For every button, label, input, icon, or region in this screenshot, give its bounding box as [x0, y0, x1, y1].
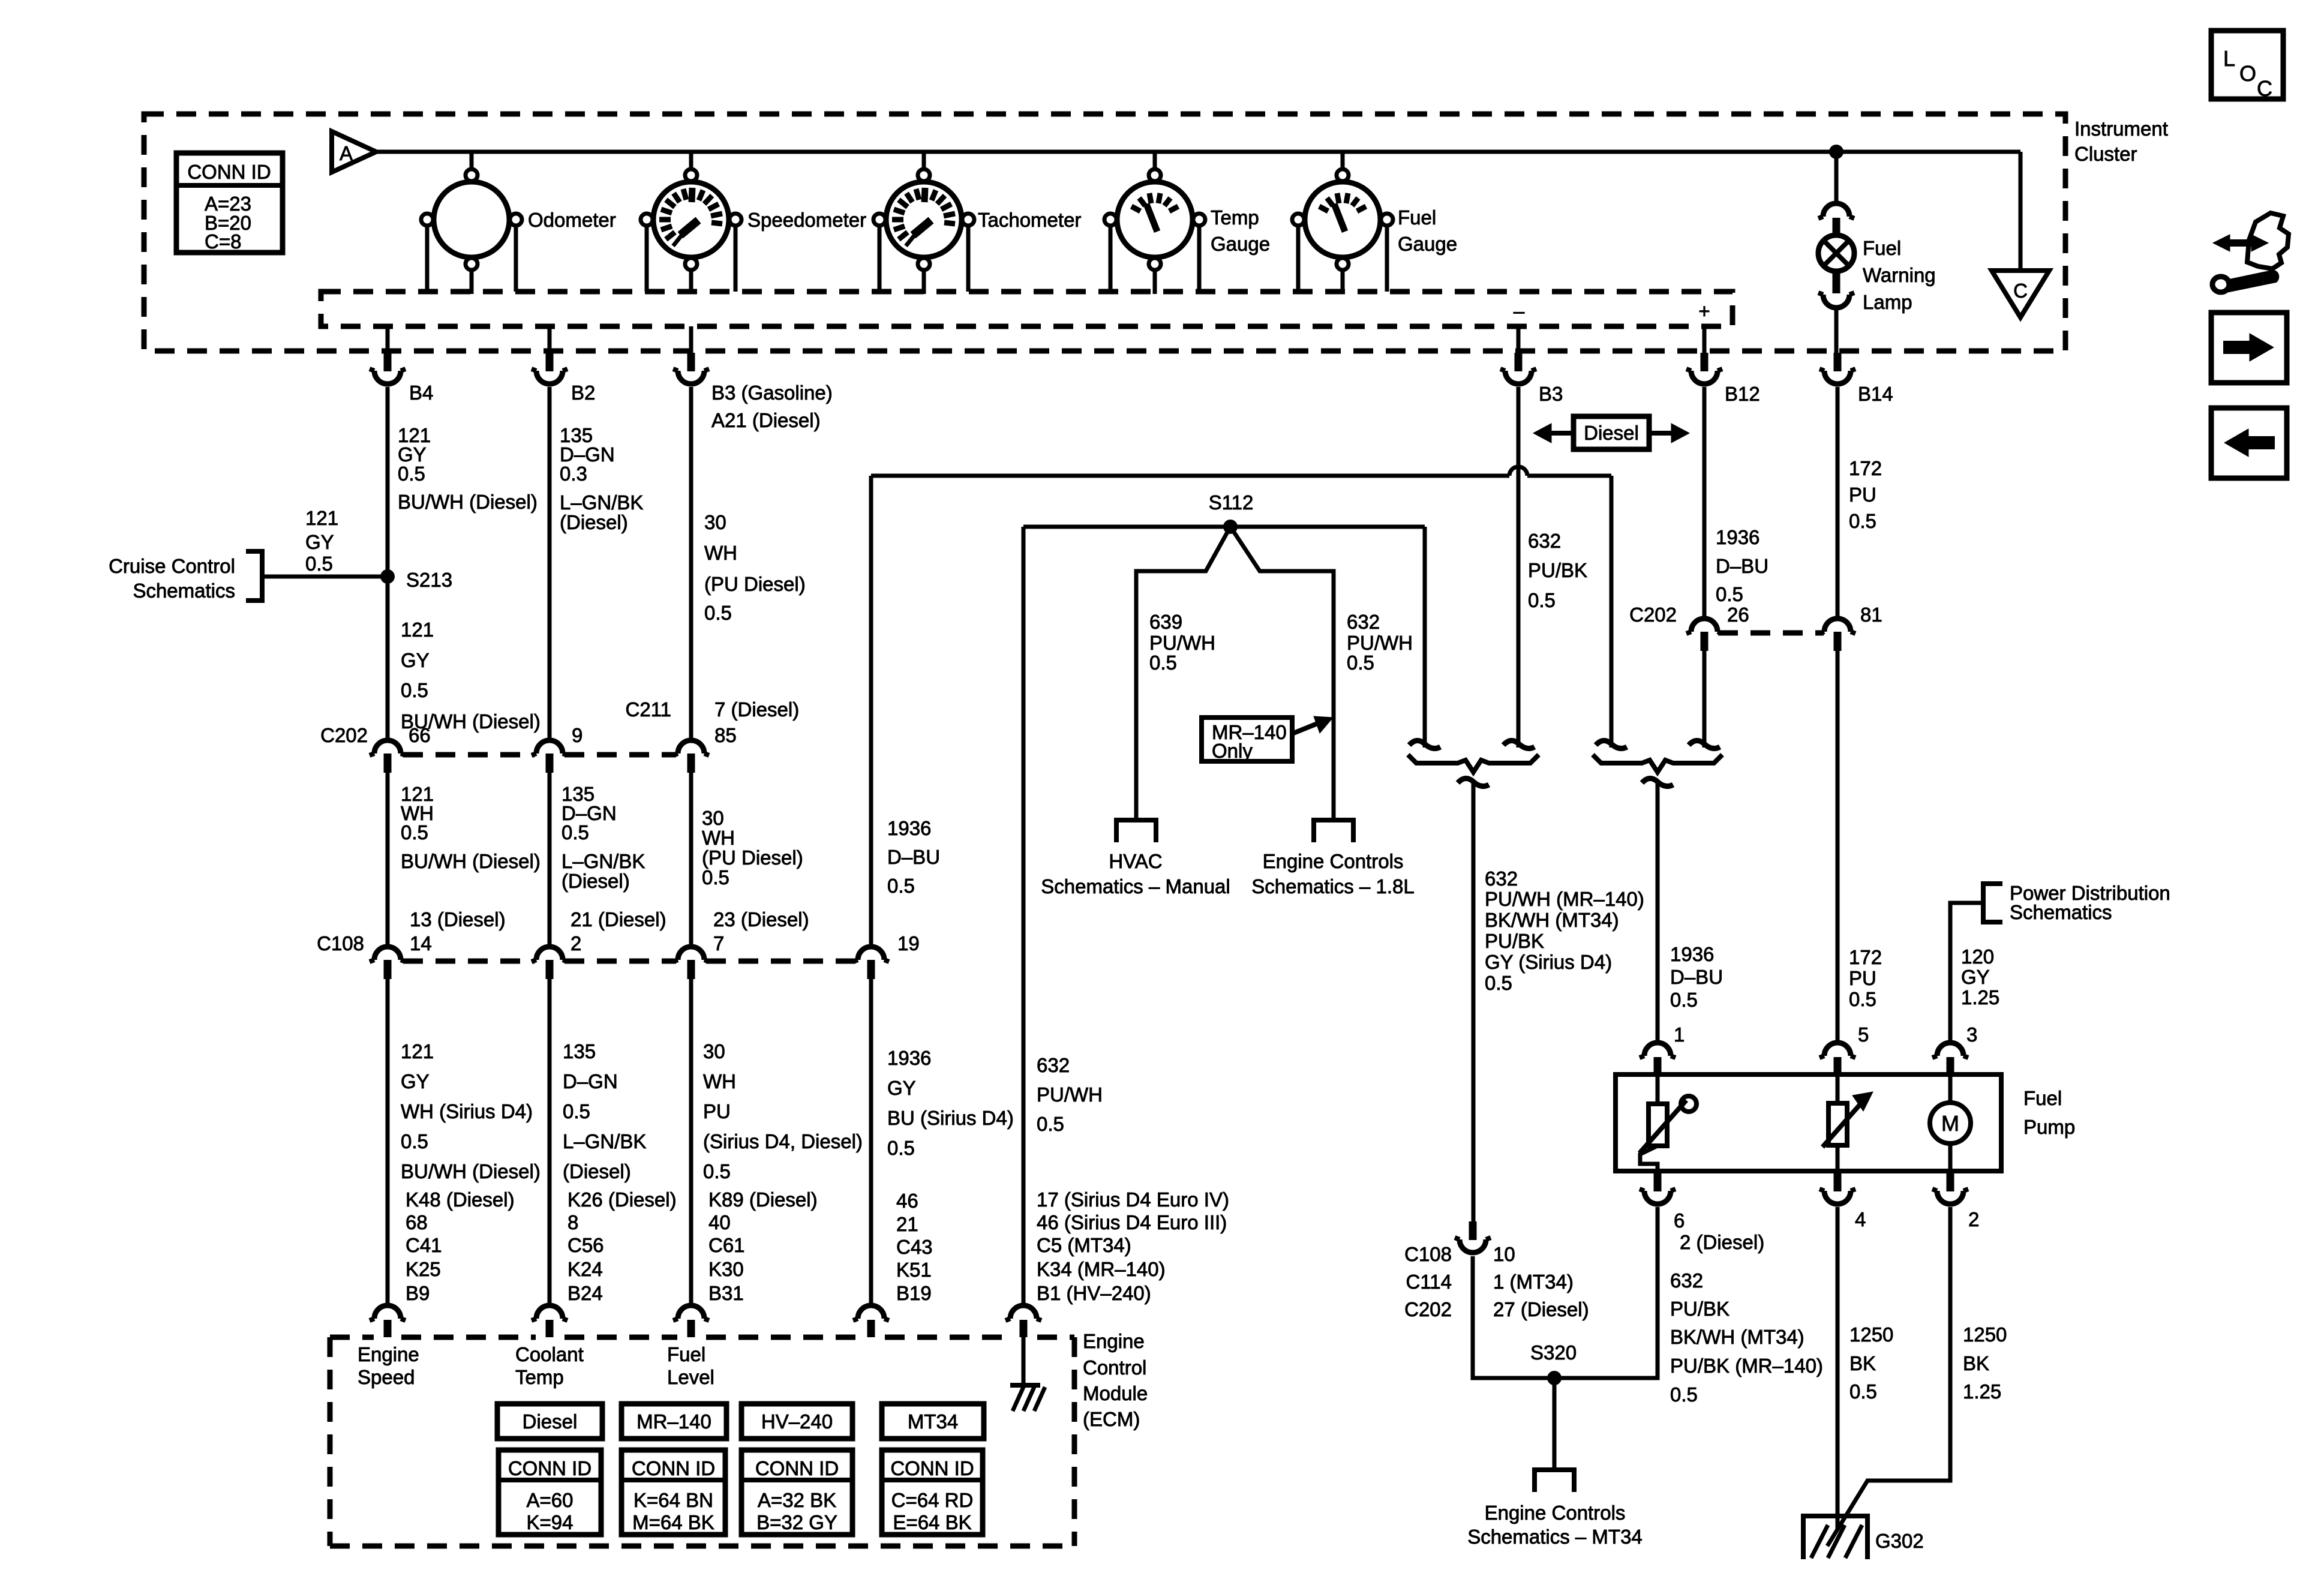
svg-text:CONN ID: CONN ID: [187, 161, 271, 183]
wire column B upper: [548, 387, 552, 739]
svg-text:C202: C202: [320, 724, 368, 746]
svg-text:120: 120: [1961, 945, 1994, 968]
svg-text:Speedometer: Speedometer: [747, 209, 866, 231]
splice S213: [380, 569, 395, 584]
svg-text:S213: S213: [406, 569, 452, 591]
wire column A lower: [386, 979, 390, 1305]
connector C108-19 column D: [858, 947, 884, 960]
svg-text:CONN ID: CONN ID: [632, 1457, 715, 1479]
fuel warning lamp assembly: [1834, 152, 1839, 205]
svg-text:G302: G302: [1875, 1530, 1924, 1552]
svg-text:B=32 GY: B=32 GY: [756, 1511, 837, 1533]
svg-text:D–BU: D–BU: [1670, 966, 1723, 988]
navigation icon arrows and wrench: [2227, 239, 2254, 247]
connector B3 (Gasoline) A21 (Diesel): [687, 353, 695, 371]
svg-text:B24: B24: [568, 1282, 603, 1304]
svg-text:23 (Diesel): 23 (Diesel): [713, 908, 809, 930]
svg-text:WH: WH: [703, 1070, 736, 1092]
svg-text:B14: B14: [1858, 383, 1893, 405]
wire column B lower: [548, 979, 552, 1305]
svg-text:17 (Sirius D4 Euro IV): 17 (Sirius D4 Euro IV): [1037, 1188, 1229, 1211]
svg-text:0.5: 0.5: [401, 679, 428, 701]
svg-text:0.5: 0.5: [401, 821, 428, 843]
wire column C lower: [689, 979, 693, 1305]
inner dashed bus box of instrument cluster: [321, 292, 1733, 326]
svg-text:(Diesel): (Diesel): [562, 870, 630, 892]
svg-text:C211: C211: [626, 698, 671, 721]
svg-text:0.5: 0.5: [703, 1160, 731, 1182]
svg-text:632: 632: [1485, 867, 1518, 890]
svg-text:S112: S112: [1209, 491, 1254, 514]
connector pin 2: [1947, 1173, 1954, 1191]
LOC icon box: [2211, 31, 2283, 99]
svg-text:C202: C202: [1404, 1298, 1452, 1320]
connector C202-81 on B14: [1824, 619, 1851, 632]
svg-text:14: 14: [410, 932, 432, 954]
svg-text:D–BU: D–BU: [1716, 555, 1768, 577]
svg-text:GY (Sirius D4): GY (Sirius D4): [1485, 951, 1612, 973]
svg-text:632: 632: [1347, 611, 1380, 633]
svg-text:MR–140: MR–140: [636, 1410, 711, 1433]
svg-text:Control: Control: [1083, 1356, 1146, 1379]
svg-text:C114: C114: [1406, 1271, 1452, 1293]
svg-text:WH (Sirius D4): WH (Sirius D4): [401, 1100, 533, 1122]
svg-text:C108: C108: [1404, 1243, 1452, 1265]
svg-text:Fuel: Fuel: [1863, 237, 1901, 259]
svg-text:C43: C43: [896, 1236, 933, 1258]
svg-text:0.5: 0.5: [305, 553, 333, 575]
svg-text:81: 81: [1860, 604, 1882, 626]
svg-text:S320: S320: [1530, 1341, 1577, 1364]
svg-text:Engine Controls: Engine Controls: [1263, 850, 1404, 872]
wire right end down to brace: [1610, 476, 1614, 748]
svg-text:3: 3: [1966, 1023, 1977, 1046]
svg-text:7 (Diesel): 7 (Diesel): [714, 698, 799, 721]
wire right brace output down to fuel pump pin 1: [1656, 780, 1660, 1043]
svg-text:PU/WH (MR–140): PU/WH (MR–140): [1485, 888, 1644, 910]
svg-text:GY: GY: [401, 649, 430, 671]
svg-text:30: 30: [702, 807, 724, 829]
svg-text:C61: C61: [708, 1234, 745, 1256]
svg-text:Cluster: Cluster: [2074, 143, 2137, 165]
svg-text:B1 (HV–240): B1 (HV–240): [1037, 1282, 1151, 1304]
output curl right brace: [1642, 778, 1673, 786]
connector B12: [1701, 353, 1709, 371]
svg-text:632: 632: [1528, 530, 1561, 552]
wire B12 below connector to brace: [1703, 651, 1707, 748]
wire B14 down to fuel pump pin 5: [1836, 387, 1840, 617]
connector C108-7 column C: [678, 947, 704, 960]
gauge Tachometer: [886, 182, 962, 257]
svg-text:B3: B3: [1539, 383, 1563, 405]
svg-text:Level: Level: [667, 1366, 714, 1388]
wire column A mid: [386, 773, 390, 945]
connector C108-2 column B: [536, 947, 563, 960]
svg-text:WH: WH: [702, 827, 735, 849]
svg-text:A21 (Diesel): A21 (Diesel): [711, 409, 821, 431]
svg-text:1: 1: [1674, 1023, 1685, 1046]
svg-text:68: 68: [406, 1211, 428, 1233]
connector B3: [1515, 353, 1523, 371]
connector row C202 dashes: [403, 752, 535, 758]
wire B12 fuel gauge plus: [1703, 326, 1707, 353]
connector C202-26 on B12: [1691, 619, 1718, 632]
svg-text:(PU Diesel): (PU Diesel): [702, 846, 803, 869]
svg-text:K48 (Diesel): K48 (Diesel): [406, 1188, 515, 1211]
svg-text:K51: K51: [896, 1259, 932, 1281]
svg-text:O: O: [2239, 61, 2256, 86]
wire end curls into left brace: [1409, 740, 1440, 748]
svg-text:0.3: 0.3: [560, 463, 587, 485]
svg-text:BK/WH (MT34): BK/WH (MT34): [1670, 1326, 1804, 1348]
motor M: [1948, 1074, 1953, 1103]
svg-text:E=64 BK: E=64 BK: [893, 1511, 971, 1533]
svg-text:1936: 1936: [1670, 943, 1714, 965]
svg-text:K=94: K=94: [527, 1511, 574, 1533]
svg-text:BK: BK: [1963, 1352, 1989, 1374]
svg-text:C=64 RD: C=64 RD: [891, 1489, 974, 1511]
gauge terminal wires down to inner bus box: [425, 226, 430, 292]
svg-text:L: L: [2223, 46, 2235, 71]
svg-text:K=64 BN: K=64 BN: [633, 1489, 713, 1511]
svg-text:632: 632: [1037, 1054, 1070, 1076]
fuel pump box: [1616, 1074, 2001, 1171]
connector B14: [1834, 353, 1842, 371]
gauge top terminal stubs to bus A: [470, 152, 474, 170]
svg-text:46 (Sirius D4 Euro III): 46 (Sirius D4 Euro III): [1037, 1211, 1227, 1233]
svg-text:40: 40: [708, 1211, 731, 1233]
CONN ID table Diesel: [499, 1450, 601, 1535]
ECM dashed box: [330, 1335, 374, 1340]
wire column E lower: [1022, 527, 1026, 1305]
wire S112 right V leg: [1230, 527, 1334, 818]
ECM internal ground: [1022, 1337, 1026, 1385]
svg-text:1.25: 1.25: [1961, 986, 1999, 1008]
svg-text:Coolant: Coolant: [515, 1343, 584, 1365]
connector B9 into ECM: [374, 1305, 401, 1319]
svg-text:8: 8: [568, 1211, 578, 1233]
svg-text:2: 2: [1968, 1208, 1979, 1230]
svg-text:1936: 1936: [887, 817, 931, 839]
svg-text:+: +: [1698, 300, 1710, 322]
svg-text:46: 46: [896, 1190, 918, 1212]
svg-text:HV–240: HV–240: [761, 1410, 833, 1433]
connector pin 5: [1824, 1043, 1851, 1056]
svg-text:135: 135: [563, 1040, 596, 1062]
svg-text:0.5: 0.5: [1347, 652, 1374, 674]
svg-text:172: 172: [1849, 946, 1882, 968]
svg-text:0.5: 0.5: [887, 1137, 915, 1159]
svg-text:GY: GY: [305, 531, 334, 553]
svg-text:0.5: 0.5: [1716, 583, 1743, 605]
svg-text:6: 6: [1674, 1209, 1685, 1232]
svg-text:2 (Diesel): 2 (Diesel): [1680, 1231, 1764, 1253]
svg-text:CONN ID: CONN ID: [890, 1457, 974, 1479]
connector B2: [546, 353, 554, 371]
svg-text:WH: WH: [704, 542, 737, 564]
CONN ID legend box A=23 B=20 C=8: [176, 153, 283, 253]
svg-text:(PU Diesel): (PU Diesel): [704, 573, 806, 595]
svg-text:1250: 1250: [1849, 1323, 1893, 1346]
svg-text:Tachometer: Tachometer: [978, 209, 1081, 231]
svg-text:13 (Diesel): 13 (Diesel): [410, 908, 506, 930]
svg-text:C108: C108: [317, 932, 364, 954]
wire pin6 down to S320 horizontal: [1473, 1207, 1658, 1378]
wire column C mid: [689, 773, 693, 945]
svg-text:A=60: A=60: [527, 1489, 574, 1511]
svg-text:C=8: C=8: [205, 230, 241, 253]
wire column A upper: [386, 387, 390, 739]
svg-text:0.5: 0.5: [1037, 1113, 1064, 1135]
svg-text:0.5: 0.5: [562, 821, 589, 843]
svg-text:10: 10: [1493, 1243, 1515, 1265]
svg-text:0.5: 0.5: [1849, 1380, 1877, 1403]
svg-text:BU/WH (Diesel): BU/WH (Diesel): [401, 1160, 541, 1182]
svg-text:GY: GY: [1961, 966, 1990, 988]
svg-text:A=32 BK: A=32 BK: [758, 1489, 836, 1511]
tag box Diesel: [497, 1404, 602, 1439]
svg-text:Temp: Temp: [515, 1366, 564, 1388]
svg-text:Schematics: Schematics: [2010, 901, 2112, 923]
wire column B mid: [548, 773, 552, 945]
wire end curls into right brace: [1596, 740, 1627, 748]
svg-text:D–BU: D–BU: [887, 846, 940, 868]
fork to Engine Controls Schematics - 1.8L: [1314, 820, 1353, 842]
connector C108 C114 C202 inline: [1469, 1221, 1477, 1240]
connector pin 6: [1654, 1173, 1662, 1191]
svg-text:0.5: 0.5: [1670, 1383, 1698, 1406]
connector C211-85 on column C: [678, 740, 704, 754]
wire pin2 down and over to ground: [1827, 1207, 1950, 1546]
svg-text:Fuel: Fuel: [667, 1343, 705, 1365]
svg-text:K24: K24: [568, 1258, 603, 1280]
svg-text:PU: PU: [703, 1100, 731, 1122]
svg-text:Cruise Control: Cruise Control: [109, 555, 235, 577]
svg-text:Fuel: Fuel: [2023, 1087, 2062, 1109]
svg-text:MT34: MT34: [908, 1410, 958, 1433]
svg-text:Fuel: Fuel: [1398, 206, 1436, 229]
wire B3/A21 from bus box: [689, 326, 693, 353]
svg-text:0.5: 0.5: [704, 602, 732, 624]
svg-text:Temp: Temp: [1211, 206, 1259, 229]
svg-text:C202: C202: [1629, 604, 1677, 626]
connector C202-66 on column A: [374, 740, 401, 754]
svg-text:CONN ID: CONN ID: [508, 1457, 591, 1479]
wire B12 down: [1703, 387, 1707, 617]
MR-140 Only tag box with arrow: [1202, 718, 1292, 761]
connector C202-9 on column B: [536, 740, 563, 754]
svg-text:L–GN/BK: L–GN/BK: [560, 491, 643, 514]
svg-text:639: 639: [1149, 611, 1182, 633]
gauge Odometer: [434, 182, 509, 257]
svg-text:A: A: [340, 142, 353, 164]
svg-text:HVAC: HVAC: [1109, 850, 1162, 872]
svg-text:5: 5: [1858, 1023, 1869, 1046]
CONN ID table MR-140: [621, 1450, 725, 1535]
Power Distribution Schematics reference: [1983, 884, 2002, 922]
svg-text:Speed: Speed: [358, 1366, 415, 1388]
wire from power distribution to fuel pump pin 3: [1950, 903, 1983, 1043]
splice S112: [1223, 520, 1238, 534]
svg-text:Engine: Engine: [1083, 1330, 1145, 1352]
svg-text:B3 (Gasoline): B3 (Gasoline): [711, 382, 833, 404]
wire pin4 down to ground: [1836, 1207, 1840, 1530]
wire column D upper segment: [869, 476, 873, 945]
fork to Engine Controls Schematics - MT34: [1535, 1470, 1574, 1492]
svg-text:Lamp: Lamp: [1863, 291, 1912, 313]
connector B31 into ECM: [678, 1305, 704, 1319]
connector row C202 26 / 81 dashes: [1718, 631, 1824, 636]
wire B2 from bus box: [548, 326, 552, 353]
fuel level sender resistor with curl arrow: [1656, 1074, 1660, 1105]
svg-text:0.5: 0.5: [1670, 989, 1698, 1011]
svg-text:2: 2: [571, 932, 581, 954]
svg-text:GY: GY: [887, 1077, 916, 1099]
svg-text:B4: B4: [409, 382, 433, 404]
tag box MT34: [882, 1404, 984, 1439]
triangle C destination: [1992, 271, 2049, 317]
svg-text:PU/BK: PU/BK: [1528, 559, 1587, 581]
svg-text:K26 (Diesel): K26 (Diesel): [568, 1188, 677, 1211]
svg-text:21: 21: [896, 1213, 918, 1235]
svg-text:Warning: Warning: [1863, 264, 1936, 286]
svg-text:7: 7: [713, 932, 724, 954]
svg-text:C5 (MT34): C5 (MT34): [1037, 1234, 1131, 1256]
svg-text:D–GN: D–GN: [563, 1070, 618, 1092]
svg-text:K34 (MR–140): K34 (MR–140): [1037, 1258, 1166, 1280]
svg-text:BU/WH (Diesel): BU/WH (Diesel): [398, 491, 538, 513]
svg-text:0.5: 0.5: [887, 875, 915, 897]
svg-text:Diesel: Diesel: [1584, 422, 1639, 444]
svg-text:Schematics – 1.8L: Schematics – 1.8L: [1251, 875, 1414, 897]
svg-text:9: 9: [572, 724, 582, 746]
svg-text:B12: B12: [1725, 383, 1760, 405]
connector B24 into ECM: [536, 1305, 563, 1319]
svg-text:CONN ID: CONN ID: [755, 1457, 839, 1479]
svg-text:0.5: 0.5: [1149, 652, 1177, 674]
svg-text:M=64 BK: M=64 BK: [632, 1511, 714, 1533]
svg-text:BK: BK: [1849, 1352, 1876, 1374]
wire left brace output down: [1472, 780, 1476, 1221]
svg-text:0.5: 0.5: [1528, 589, 1556, 611]
svg-text:19: 19: [897, 932, 920, 954]
svg-text:Schematics: Schematics: [133, 580, 235, 602]
svg-text:(ECM): (ECM): [1083, 1408, 1140, 1430]
triangle A bus source: [332, 131, 376, 172]
svg-text:PU/WH: PU/WH: [1037, 1083, 1103, 1106]
connector pin 4: [1834, 1173, 1842, 1191]
next page arrow icon: [2211, 313, 2287, 383]
gauge Temp Gauge: [1117, 182, 1193, 257]
svg-text:30: 30: [703, 1040, 725, 1062]
svg-text:PU/BK: PU/BK: [1485, 930, 1544, 952]
svg-text:Gauge: Gauge: [1211, 233, 1270, 255]
fork to HVAC Schematics - Manual: [1116, 820, 1156, 842]
connector B19 into ECM: [858, 1305, 884, 1319]
svg-text:L–GN/BK: L–GN/BK: [563, 1130, 646, 1152]
svg-text:0.5: 0.5: [398, 463, 425, 485]
svg-text:0.5: 0.5: [1485, 972, 1512, 994]
svg-text:27 (Diesel): 27 (Diesel): [1493, 1298, 1589, 1320]
svg-text:M: M: [1941, 1111, 1959, 1136]
wire cruise branch: [262, 575, 388, 579]
previous page arrow icon: [2211, 408, 2287, 478]
svg-text:Engine: Engine: [358, 1343, 419, 1365]
wire S320 down to fork: [1553, 1378, 1557, 1470]
wire S112 right branch down to splice brace: [1423, 527, 1427, 748]
Diesel variant tag with arrows: [1574, 416, 1649, 449]
svg-text:Pump: Pump: [2023, 1116, 2075, 1138]
svg-text:PU/BK (MR–140): PU/BK (MR–140): [1670, 1355, 1823, 1377]
output curl left brace: [1458, 778, 1489, 786]
svg-text:121: 121: [305, 507, 338, 529]
svg-text:C: C: [2013, 280, 2028, 302]
svg-text:632: 632: [1670, 1269, 1703, 1292]
svg-text:121: 121: [401, 1040, 434, 1062]
svg-text:Module: Module: [1083, 1382, 1148, 1404]
svg-text:0.5: 0.5: [563, 1100, 590, 1122]
svg-text:Schematics – Manual: Schematics – Manual: [1041, 875, 1230, 897]
svg-text:B31: B31: [708, 1282, 744, 1304]
connector B4: [384, 353, 392, 371]
svg-text:K30: K30: [708, 1258, 744, 1280]
svg-text:(Diesel): (Diesel): [560, 511, 628, 533]
svg-text:1 (MT34): 1 (MT34): [1493, 1271, 1574, 1293]
svg-text:0.5: 0.5: [1849, 988, 1876, 1010]
wire B3 column down with hop: [1517, 387, 1521, 748]
variable resistor with arrow: [1836, 1074, 1840, 1103]
svg-text:0.5: 0.5: [702, 866, 729, 888]
svg-text:Instrument: Instrument: [2074, 118, 2168, 140]
svg-text:K89 (Diesel): K89 (Diesel): [708, 1188, 818, 1211]
svg-text:1.25: 1.25: [1963, 1380, 2001, 1403]
svg-text:4: 4: [1855, 1208, 1866, 1230]
svg-text:0.5: 0.5: [1849, 510, 1876, 532]
svg-text:Engine Controls: Engine Controls: [1485, 1502, 1626, 1524]
svg-text:BU/WH (Diesel): BU/WH (Diesel): [401, 850, 541, 872]
connector C108-14 column A: [374, 947, 401, 960]
gauge Fuel Gauge: [1305, 182, 1380, 257]
svg-text:PU/WH: PU/WH: [1149, 632, 1215, 654]
svg-text:1250: 1250: [1963, 1323, 2007, 1346]
wire S112 horizontal: [1023, 525, 1425, 529]
gauge Speedometer: [653, 182, 729, 257]
svg-text:172: 172: [1849, 457, 1882, 479]
tag box HV-240: [741, 1404, 852, 1439]
svg-text:BK/WH (MT34): BK/WH (MT34): [1485, 909, 1619, 931]
svg-text:PU/WH: PU/WH: [1347, 632, 1413, 654]
svg-text:–: –: [1514, 300, 1525, 322]
svg-text:C: C: [2257, 76, 2272, 101]
connector row C108 dashes: [403, 959, 535, 964]
tag box MR-140: [621, 1404, 726, 1439]
svg-text:PU: PU: [1849, 967, 1876, 989]
outer dashed box: Instrument Cluster: [144, 114, 2065, 351]
wire horizontal to column D with hop over B3: [871, 474, 1611, 478]
svg-text:Odometer: Odometer: [528, 209, 616, 231]
splice S320: [1547, 1371, 1562, 1385]
svg-text:PU/BK: PU/BK: [1670, 1298, 1730, 1320]
svg-text:PU: PU: [1849, 484, 1876, 506]
svg-text:66: 66: [409, 724, 431, 746]
svg-text:(Sirius D4, Diesel): (Sirius D4, Diesel): [703, 1130, 863, 1152]
CONN ID table MT34: [882, 1450, 983, 1535]
svg-text:K25: K25: [406, 1258, 441, 1280]
wire B3 fuel gauge minus: [1517, 326, 1521, 353]
svg-text:(Diesel): (Diesel): [563, 1160, 631, 1182]
svg-text:26: 26: [1727, 604, 1749, 626]
ground G302 frame and hatches: [1803, 1516, 1867, 1559]
